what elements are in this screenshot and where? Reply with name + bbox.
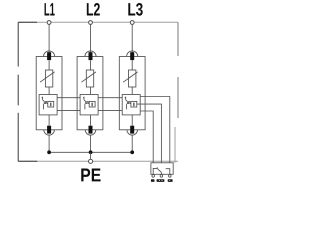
module 3 body outline <box>119 57 145 130</box>
module 2 bottom terminal lug <box>89 126 93 134</box>
junction dot L1/PE <box>47 150 51 154</box>
contact circle 3 <box>169 175 172 178</box>
enclosure dashed border right edge <box>177 22 179 118</box>
disconnector symbol module 2 <box>83 97 89 110</box>
wire disconnector to bottom terminal module 2 <box>90 115 92 126</box>
module 3 top terminal lug <box>130 52 134 60</box>
FM link wire top (module1-module2) <box>57 97 80 99</box>
PE collecting bus <box>49 151 132 153</box>
enclosure border right edge lower dash <box>174 127 176 163</box>
varistor diagonal stroke module 2 <box>81 72 96 82</box>
contact circle 2 <box>160 175 163 178</box>
module 1 bottom terminal lug <box>47 126 51 134</box>
indicator box module 1 <box>48 101 54 107</box>
wire module 1 to PE bus <box>48 135 50 152</box>
terminal mark 3 <box>168 179 173 182</box>
indicator box module 3 <box>131 101 137 107</box>
module 2 bottom plug arc <box>85 130 96 135</box>
wire L2 drop <box>90 24 92 52</box>
wire L3 drop <box>131 24 133 52</box>
module 1 top plug arc <box>44 51 55 57</box>
label L2 <box>87 3 100 15</box>
module 3 top plug arc <box>127 51 138 57</box>
junction dot L3/PE <box>130 150 134 154</box>
enclosure dashed border bottom edge / PE bus <box>18 160 178 162</box>
wire PE bus to PE terminal <box>90 152 92 159</box>
disconnector/FM box module 1 <box>39 95 57 115</box>
varistor MOV body module 3 <box>129 70 136 87</box>
wire varistor to disconnector module 1 <box>48 87 50 95</box>
changeover contact: NC lever <box>153 167 161 174</box>
disconnector symbol module 1 <box>42 97 48 110</box>
SPD module 1 (L1 varistor cartridge) <box>36 51 62 152</box>
terminal mark 1 <box>151 179 155 182</box>
changeover contact: common stem <box>160 172 162 174</box>
varistor diagonal stroke module 3 <box>123 72 138 82</box>
module 3 bottom plug arc <box>127 130 138 135</box>
contact circle 1 <box>152 175 155 178</box>
module 2 body outline <box>77 57 103 130</box>
wire varistor to disconnector module 2 <box>90 87 92 95</box>
module 3 bottom terminal lug <box>130 126 134 134</box>
FM link wire top (module2-module3) <box>99 97 123 99</box>
module 1 top terminal lug <box>47 52 51 60</box>
wire terminal to varistor module 2 <box>90 60 92 70</box>
indicator inner mark module 3 <box>133 103 135 107</box>
node L1 terminal circle <box>47 21 51 25</box>
wire varistor to disconnector module 3 <box>131 87 133 95</box>
node L2 terminal circle <box>89 21 93 25</box>
FM signalling wire 1 (top, to right drop) <box>140 97 170 163</box>
disconnector/FM box module 2 <box>80 95 98 115</box>
wire module 3 to PE bus <box>131 135 133 152</box>
border bottom edge dark corner dashes <box>18 160 37 162</box>
FM link wire bottom (module1-module2) <box>57 109 80 111</box>
wire module 2 to PE bus <box>90 135 92 152</box>
varistor MOV body module 2 <box>86 70 93 87</box>
module 2 top terminal lug <box>89 52 93 60</box>
junction dot L2/PE <box>89 150 93 154</box>
disconnector/FM box module 3 <box>122 95 140 115</box>
disconnector symbol module 3 <box>125 97 131 110</box>
border top edge dark corner dashes <box>18 21 37 23</box>
SPD module 2 (L2 varistor cartridge) <box>77 51 103 152</box>
remote signalling terminal block <box>151 163 173 175</box>
module 1 body outline <box>36 57 62 130</box>
enclosure dashed border top edge / L bus <box>18 21 178 23</box>
module 2 top plug arc <box>85 51 96 57</box>
node L3 terminal circle <box>130 21 134 25</box>
wire L1 drop <box>48 24 50 52</box>
indicator box module 2 <box>89 101 95 107</box>
enclosure dashed border left edge <box>17 22 19 161</box>
varistor diagonal stroke module 1 <box>40 72 55 82</box>
indicator inner mark module 2 <box>91 103 93 107</box>
module 1 bottom plug arc <box>44 130 55 135</box>
wire terminal to varistor <box>48 60 50 70</box>
indicator inner mark module 1 <box>50 103 52 107</box>
FM signalling wire 3 (bottom, to left drop) <box>140 111 153 163</box>
label L3 <box>128 3 142 16</box>
FM link wire bottom (module2-module3) <box>99 109 123 111</box>
wire disconnector to bottom terminal module 1 <box>48 115 50 126</box>
label L1 <box>45 3 55 15</box>
label PE <box>81 169 100 182</box>
wire terminal to varistor module 3 <box>131 60 133 70</box>
varistor MOV body module 1 <box>45 70 52 87</box>
wire disconnector to bottom terminal module 3 <box>131 115 133 126</box>
FM signalling wire 2 (middle drop) <box>137 104 162 163</box>
terminal mark 2 <box>157 179 165 182</box>
node PE terminal circle <box>89 159 93 163</box>
SPD module 3 (L3 varistor cartridge) <box>119 51 145 152</box>
changeover contact: NO hook <box>166 169 170 175</box>
